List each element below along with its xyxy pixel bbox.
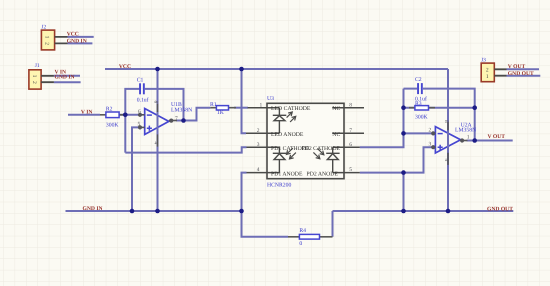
net label V IN at J1 bbox=[55, 70, 67, 76]
PD1 light arrows bbox=[287, 148, 296, 159]
net label GND IN rail bbox=[83, 206, 103, 212]
svg-text:4: 4 bbox=[153, 142, 159, 145]
svg-text:2: 2 bbox=[429, 128, 432, 134]
svg-text:GND IN: GND IN bbox=[83, 206, 103, 212]
svg-text:V IN: V IN bbox=[81, 109, 93, 115]
svg-text:PD2 CATHODE: PD2 CATHODE bbox=[302, 146, 341, 152]
photodiode PD2 inside U3 bbox=[326, 147, 339, 172]
wire inverting node to PD1 cathode U3 pin 3 bbox=[125, 147, 246, 152]
U2A pin number 1 bbox=[467, 134, 470, 140]
svg-text:6: 6 bbox=[349, 142, 352, 148]
wire U2A power vertical bbox=[447, 69, 449, 211]
wire PD2 cathode U3 pin 6 to inverting node of U2A bbox=[360, 89, 404, 148]
svg-text:7: 7 bbox=[175, 116, 178, 122]
designator U2A bbox=[461, 123, 473, 129]
junction node GND IN / U1B pin4 bbox=[155, 209, 160, 214]
wire PD2 anode U3 pin 5 to GND OUT bbox=[360, 173, 404, 211]
svg-text:GND OUT: GND OUT bbox=[508, 71, 534, 77]
designator R2 bbox=[106, 106, 113, 112]
wire J3 pin2 V OUT stub bbox=[507, 68, 540, 70]
svg-text:HCNR200: HCNR200 bbox=[267, 182, 291, 188]
J2 pin numbers bbox=[43, 36, 49, 46]
U2A pin 3 stub bbox=[432, 146, 436, 149]
U3 pin 5 bbox=[333, 172, 360, 174]
wire R2 to U1B pin 6 bbox=[119, 114, 139, 116]
svg-text:LM358N: LM358N bbox=[171, 107, 192, 113]
junction node GND OUT / PD2 bbox=[401, 209, 406, 214]
U2A pin number 8 rotated bbox=[443, 120, 449, 123]
svg-text:2: 2 bbox=[31, 81, 37, 84]
U3 pin name PD2 ANODE bbox=[307, 172, 339, 178]
svg-text:J3: J3 bbox=[481, 58, 486, 64]
svg-text:R1: R1 bbox=[210, 102, 217, 108]
wire PD1 anode U3 pin 4 to GND IN bbox=[242, 173, 247, 211]
wire J1 pin2 GND IN stub bbox=[54, 81, 81, 83]
svg-text:VCC: VCC bbox=[67, 32, 79, 38]
svg-text:2: 2 bbox=[43, 42, 49, 45]
svg-text:6: 6 bbox=[138, 109, 141, 115]
junction node VCC/LED anode bbox=[239, 67, 244, 72]
svg-text:LM358N: LM358N bbox=[455, 127, 476, 133]
optocoupler U3 body bbox=[267, 103, 344, 178]
connector J2 bbox=[41, 30, 67, 50]
U2A power pin tips bbox=[447, 122, 449, 165]
net label V OUT at U2A bbox=[488, 134, 506, 140]
U3 pin 4 bbox=[247, 172, 280, 174]
svg-text:LED ANODE: LED ANODE bbox=[271, 132, 304, 138]
svg-text:U3: U3 bbox=[267, 96, 274, 102]
wire C2 feedback loop bbox=[404, 89, 475, 141]
U2A pin 2 stub bbox=[432, 132, 436, 135]
net label GND OUT rail bbox=[487, 207, 513, 213]
svg-text:4: 4 bbox=[257, 167, 260, 173]
resistor R1 bbox=[210, 106, 236, 110]
value R2 300K bbox=[106, 123, 120, 129]
value U3 HCNR200 bbox=[267, 182, 291, 188]
junction node U1B output bbox=[181, 118, 186, 123]
wire C1 feedback loop bbox=[125, 89, 183, 153]
U3 pin 2 bbox=[246, 132, 279, 134]
U3 pin name PD1 CATHODE bbox=[271, 146, 310, 152]
svg-text:J1: J1 bbox=[35, 63, 40, 69]
svg-text:1: 1 bbox=[486, 74, 489, 80]
U3 pin numbers left bbox=[257, 102, 263, 173]
svg-text:NC: NC bbox=[332, 132, 340, 138]
U3 pin 1 bbox=[248, 107, 280, 109]
U3 pin name NC top bbox=[332, 106, 340, 112]
junction node U2A pin2 bbox=[401, 131, 406, 136]
net label V OUT at J3 bbox=[508, 64, 526, 70]
wire J1 pin1 V IN stub bbox=[54, 75, 80, 77]
U3 pin name NC bottom bbox=[332, 132, 340, 138]
op-amp U2A body bbox=[435, 127, 460, 153]
junction node inverting input U1B bbox=[123, 113, 128, 118]
op-amp U1B body bbox=[145, 109, 169, 135]
U2A pin number 4 rotated bbox=[443, 159, 449, 162]
junction node GND IN / pin5 bbox=[130, 209, 135, 214]
U3 pin 6 bbox=[333, 146, 360, 148]
LED inside U3 bbox=[273, 108, 287, 134]
U1B pin number 6 bbox=[138, 109, 141, 115]
J1 pin numbers bbox=[31, 75, 37, 84]
svg-text:PD2 ANODE: PD2 ANODE bbox=[307, 172, 339, 178]
U1B pin 5 stub bbox=[138, 126, 144, 129]
U3 pin 8 NC bbox=[332, 107, 364, 109]
wire GND IN down to R4 bbox=[242, 211, 289, 237]
svg-text:1: 1 bbox=[43, 36, 49, 39]
junction node R3 left bbox=[401, 105, 406, 110]
wire VCC main rail bbox=[105, 68, 448, 70]
svg-text:R2: R2 bbox=[106, 106, 113, 112]
U2A pin 1 stub bbox=[461, 139, 468, 142]
resistor R3 bbox=[409, 106, 435, 110]
designator U3 bbox=[267, 96, 274, 102]
U1B pin 6 stub bbox=[138, 114, 144, 117]
U3 pin name LED CATHODE bbox=[271, 106, 311, 112]
wire R3 row bbox=[404, 107, 475, 109]
wire U2A pin 2 to node bbox=[404, 132, 432, 134]
net label GND IN at J1 bbox=[55, 75, 75, 81]
net label VCC main bbox=[119, 64, 131, 70]
svg-text:1: 1 bbox=[31, 75, 37, 78]
svg-text:1K: 1K bbox=[217, 110, 225, 116]
U1B pin number 5 bbox=[138, 122, 141, 128]
designator U1B bbox=[171, 102, 182, 108]
wire J3 pin1 GND OUT stub bbox=[507, 75, 541, 77]
wire V IN to R2 bbox=[68, 114, 100, 116]
designator R4 bbox=[299, 228, 306, 234]
net label V IN at R2 bbox=[81, 109, 93, 115]
junction node VCC/U1B pin8 bbox=[155, 67, 160, 72]
svg-text:PD1 ANODE: PD1 ANODE bbox=[271, 172, 303, 178]
svg-text:7: 7 bbox=[349, 128, 352, 134]
svg-text:V OUT: V OUT bbox=[488, 134, 506, 140]
svg-text:5: 5 bbox=[138, 122, 141, 128]
svg-text:R4: R4 bbox=[299, 228, 306, 234]
capacitor C1 bbox=[139, 83, 145, 94]
wire J2 pin1 VCC stub bbox=[68, 36, 94, 38]
U1B pin number 4 rotated bbox=[153, 142, 159, 145]
J3 pin numbers bbox=[486, 67, 489, 80]
svg-text:V OUT: V OUT bbox=[508, 64, 526, 70]
svg-text:R3: R3 bbox=[415, 101, 422, 107]
svg-text:8: 8 bbox=[443, 120, 449, 123]
connector J3 bbox=[481, 63, 506, 82]
svg-text:8: 8 bbox=[349, 102, 352, 108]
U3 pin 7 NC bbox=[332, 132, 364, 134]
svg-text:C1: C1 bbox=[137, 78, 144, 84]
junction node PD2 anode / U2A pin3 bbox=[401, 170, 406, 175]
junction node GND OUT / U2A pin4 bbox=[446, 209, 451, 214]
wire GND IN rail bbox=[66, 210, 242, 212]
svg-text:1: 1 bbox=[467, 134, 470, 140]
svg-text:0: 0 bbox=[299, 241, 302, 247]
wire GND OUT rail bbox=[333, 210, 514, 212]
U3 pin 3 bbox=[247, 146, 280, 148]
wire VCC to LED anode (U3 pin 2) bbox=[242, 69, 247, 133]
svg-text:2: 2 bbox=[257, 128, 260, 134]
U3 pin name PD2 CATHODE bbox=[302, 146, 341, 152]
designator C2 bbox=[415, 77, 422, 83]
svg-text:2: 2 bbox=[486, 67, 489, 73]
U2A pin number 2 bbox=[429, 128, 432, 134]
svg-text:4: 4 bbox=[443, 159, 449, 162]
U1B pin 7 stub bbox=[169, 119, 177, 122]
svg-text:J2: J2 bbox=[41, 25, 46, 31]
designator J3 bbox=[481, 58, 486, 64]
U1B pin number 7 bbox=[175, 116, 178, 122]
value R3 300K bbox=[415, 115, 429, 121]
U3 pin numbers right bbox=[349, 102, 352, 173]
LED emission arrows bbox=[287, 112, 296, 122]
designator R3 bbox=[415, 101, 422, 107]
wire U1B pin 5 to GND IN bbox=[132, 127, 139, 211]
svg-text:C2: C2 bbox=[415, 77, 422, 83]
PD2 light arrows bbox=[313, 148, 323, 158]
svg-text:LED CATHODE: LED CATHODE bbox=[271, 106, 311, 112]
U1B power pin tips bbox=[157, 104, 159, 147]
svg-text:8: 8 bbox=[153, 101, 159, 104]
wire U2A output to V OUT bbox=[467, 140, 513, 142]
wire U1B power vertical VCC to GND bbox=[157, 69, 159, 211]
connector J1 bbox=[29, 70, 54, 89]
svg-text:0.1uf: 0.1uf bbox=[137, 97, 149, 103]
value U2A LM358N bbox=[455, 127, 476, 133]
U3 pin name LED ANODE bbox=[271, 132, 304, 138]
resistor R4 bbox=[288, 234, 333, 239]
wire R4 to GND OUT rail bbox=[332, 211, 334, 237]
designator R1 bbox=[210, 102, 217, 108]
net label VCC at J2 bbox=[67, 32, 79, 38]
svg-text:300K: 300K bbox=[106, 123, 120, 129]
svg-text:3: 3 bbox=[257, 142, 260, 148]
value R4 0 bbox=[299, 241, 302, 247]
svg-text:VCC: VCC bbox=[119, 64, 131, 70]
svg-text:300K: 300K bbox=[415, 115, 429, 121]
wire J2 pin2 GND IN stub bbox=[68, 42, 93, 44]
value C2 0.1uf bbox=[415, 97, 427, 103]
net label GND OUT at J3 bbox=[508, 71, 534, 77]
svg-text:GND IN: GND IN bbox=[55, 75, 75, 81]
svg-text:5: 5 bbox=[349, 167, 352, 173]
junction node GND IN / PD1 anode bbox=[239, 209, 244, 214]
wire U2A pin 3 jog to ground node bbox=[404, 147, 432, 172]
photodiode PD1 inside U3 bbox=[273, 147, 287, 172]
resistor R2 bbox=[100, 112, 125, 118]
U3 pin name PD1 ANODE bbox=[271, 172, 303, 178]
designator J1 bbox=[35, 63, 40, 69]
capacitor C2 bbox=[417, 83, 423, 94]
designator J2 bbox=[41, 25, 46, 31]
junction node U2A output bbox=[472, 138, 477, 143]
designator C1 bbox=[137, 78, 144, 84]
svg-text:GND IN: GND IN bbox=[67, 38, 87, 44]
svg-text:GND OUT: GND OUT bbox=[487, 207, 513, 213]
value R1 1K bbox=[217, 110, 225, 116]
value C1 0.1uf bbox=[137, 97, 149, 103]
U2A pin number 3 bbox=[429, 141, 432, 147]
wire U1B output to R1 bbox=[176, 108, 210, 121]
U1B pin number 8 rotated bbox=[153, 101, 159, 104]
svg-text:NC: NC bbox=[332, 106, 340, 112]
svg-text:3: 3 bbox=[429, 141, 432, 147]
junction node R3 right bbox=[472, 105, 477, 110]
wire R1 to U3 pin 1 bbox=[234, 107, 248, 109]
svg-text:1: 1 bbox=[260, 102, 263, 108]
value U1B LM358N bbox=[171, 107, 192, 113]
net label GND IN at J2 bbox=[67, 38, 87, 44]
